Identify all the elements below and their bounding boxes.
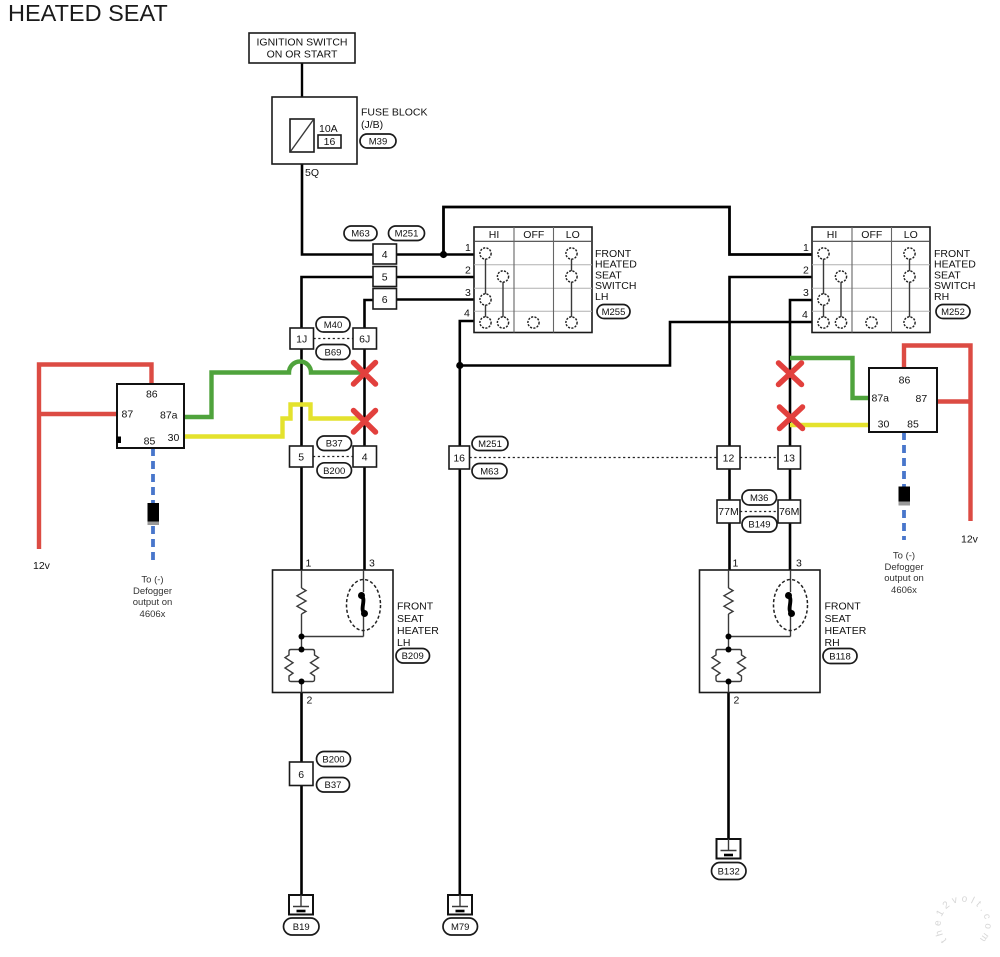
svg-text:10A: 10A bbox=[319, 123, 338, 135]
svg-text:1: 1 bbox=[306, 558, 312, 570]
svg-text:87: 87 bbox=[916, 393, 928, 405]
svg-text:HEATER: HEATER bbox=[825, 625, 867, 637]
svg-text:4: 4 bbox=[362, 452, 368, 464]
svg-text:87a: 87a bbox=[872, 393, 890, 405]
svg-text:FRONT: FRONT bbox=[825, 601, 862, 613]
svg-text:87a: 87a bbox=[160, 410, 178, 422]
svg-text:87: 87 bbox=[122, 409, 134, 421]
svg-text:IGNITION SWITCH: IGNITION SWITCH bbox=[257, 37, 348, 49]
svg-text:LO: LO bbox=[904, 229, 918, 241]
svg-text:M255: M255 bbox=[602, 307, 626, 318]
svg-text:2: 2 bbox=[465, 265, 471, 277]
svg-text:output on: output on bbox=[133, 597, 173, 608]
svg-text:Defogger: Defogger bbox=[133, 586, 172, 597]
svg-text:4: 4 bbox=[464, 308, 470, 320]
svg-text:B149: B149 bbox=[748, 520, 770, 531]
svg-text:M63: M63 bbox=[480, 467, 498, 478]
svg-text:4606x: 4606x bbox=[891, 585, 917, 596]
svg-text:2: 2 bbox=[734, 695, 740, 707]
svg-text:B209: B209 bbox=[402, 651, 424, 662]
svg-text:85: 85 bbox=[144, 436, 156, 448]
svg-text:5Q: 5Q bbox=[305, 167, 319, 179]
svg-text:FRONT: FRONT bbox=[397, 601, 434, 613]
svg-text:5: 5 bbox=[298, 452, 304, 464]
svg-text:HEATER: HEATER bbox=[397, 625, 439, 637]
svg-text:B200: B200 bbox=[322, 755, 344, 766]
svg-text:SEAT: SEAT bbox=[397, 613, 424, 625]
svg-text:RH: RH bbox=[934, 291, 949, 303]
svg-text:16: 16 bbox=[453, 453, 465, 465]
svg-text:B37: B37 bbox=[326, 439, 343, 450]
svg-text:M39: M39 bbox=[369, 137, 387, 148]
svg-text:HI: HI bbox=[827, 229, 838, 241]
svg-text:M79: M79 bbox=[451, 922, 469, 933]
svg-text:B37: B37 bbox=[325, 780, 342, 791]
svg-text:M36: M36 bbox=[750, 493, 768, 504]
svg-text:(J/B): (J/B) bbox=[361, 119, 383, 131]
svg-text:86: 86 bbox=[899, 375, 911, 387]
svg-text:12v: 12v bbox=[961, 534, 979, 546]
svg-text:3: 3 bbox=[803, 287, 809, 299]
svg-text:B69: B69 bbox=[325, 348, 342, 359]
svg-text:86: 86 bbox=[146, 389, 158, 401]
svg-text:output on: output on bbox=[884, 573, 924, 584]
svg-text:RH: RH bbox=[825, 637, 840, 649]
svg-text:13: 13 bbox=[783, 453, 795, 465]
svg-text:B19: B19 bbox=[293, 922, 310, 933]
svg-text:To (-): To (-) bbox=[893, 551, 915, 562]
svg-text:HEATED SEAT: HEATED SEAT bbox=[8, 0, 168, 26]
svg-text:1: 1 bbox=[733, 558, 739, 570]
svg-text:B132: B132 bbox=[718, 867, 740, 878]
svg-text:16: 16 bbox=[324, 136, 336, 148]
svg-text:30: 30 bbox=[168, 432, 180, 444]
svg-text:85: 85 bbox=[907, 419, 919, 431]
svg-text:To (-): To (-) bbox=[141, 575, 163, 586]
svg-text:12v: 12v bbox=[33, 560, 51, 572]
svg-text:4: 4 bbox=[382, 249, 388, 261]
svg-text:LH: LH bbox=[595, 291, 608, 303]
svg-text:4606x: 4606x bbox=[140, 609, 166, 620]
svg-text:1J: 1J bbox=[296, 334, 307, 346]
svg-text:6J: 6J bbox=[359, 334, 370, 346]
svg-text:ON OR START: ON OR START bbox=[267, 49, 338, 61]
svg-text:B118: B118 bbox=[829, 652, 850, 663]
svg-text:4: 4 bbox=[802, 309, 808, 321]
svg-text:6: 6 bbox=[298, 769, 304, 781]
svg-text:LO: LO bbox=[566, 229, 580, 241]
svg-text:77M: 77M bbox=[718, 506, 738, 518]
svg-text:M40: M40 bbox=[324, 320, 342, 331]
svg-text:3: 3 bbox=[465, 287, 471, 299]
svg-text:OFF: OFF bbox=[861, 229, 882, 241]
svg-text:M251: M251 bbox=[395, 229, 419, 240]
svg-text:Defogger: Defogger bbox=[884, 562, 923, 573]
svg-text:OFF: OFF bbox=[523, 229, 544, 241]
svg-text:12: 12 bbox=[723, 453, 735, 465]
svg-text:3: 3 bbox=[369, 558, 375, 570]
svg-text:6: 6 bbox=[382, 294, 388, 306]
svg-text:2: 2 bbox=[803, 265, 809, 277]
svg-text:2: 2 bbox=[307, 695, 313, 707]
svg-text:5: 5 bbox=[382, 272, 388, 284]
svg-text:76M: 76M bbox=[779, 506, 799, 518]
svg-text:HI: HI bbox=[489, 229, 500, 241]
svg-text:M63: M63 bbox=[351, 229, 369, 240]
svg-text:SEAT: SEAT bbox=[825, 613, 852, 625]
svg-text:1: 1 bbox=[803, 242, 809, 254]
svg-text:3: 3 bbox=[796, 558, 802, 570]
svg-text:M251: M251 bbox=[478, 439, 502, 450]
svg-text:30: 30 bbox=[878, 419, 890, 431]
svg-text:M252: M252 bbox=[941, 307, 965, 318]
svg-text:LH: LH bbox=[397, 637, 410, 649]
svg-text:FUSE BLOCK: FUSE BLOCK bbox=[361, 107, 428, 119]
svg-text:B200: B200 bbox=[323, 466, 345, 477]
svg-text:1: 1 bbox=[465, 242, 471, 254]
